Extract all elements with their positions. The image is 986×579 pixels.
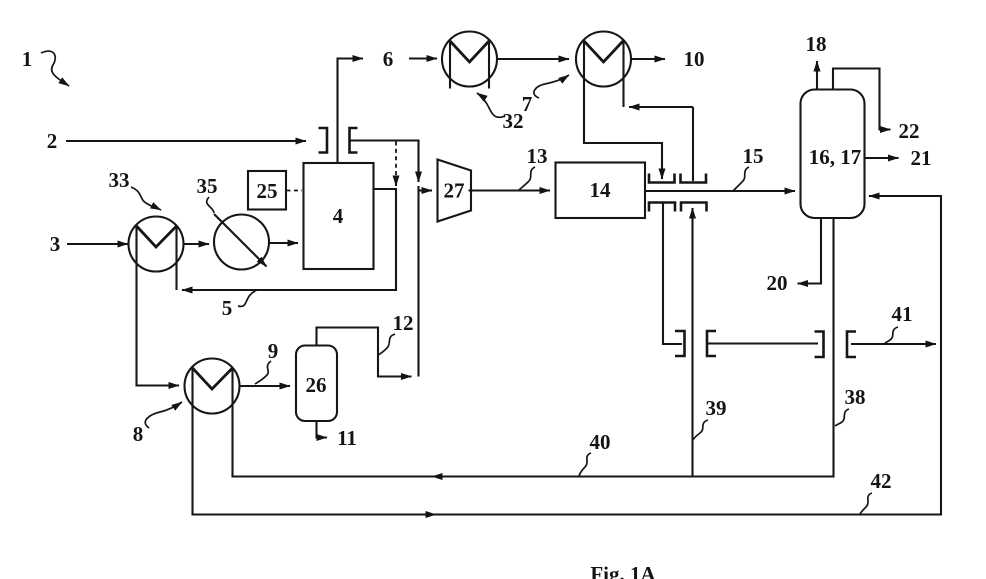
- svg-text:15: 15: [743, 144, 764, 168]
- wire stream 12 from vessel 26 top: [317, 328, 412, 377]
- wire stream 9 HX8 to vessel 26: [240, 385, 291, 387]
- wire stream 3: [67, 243, 128, 245]
- jump bracket right-half ] at line 2 over line 6: [319, 128, 328, 153]
- wire stream 2: [66, 140, 306, 142]
- svg-text:42: 42: [871, 469, 892, 493]
- svg-text:33: 33: [109, 168, 130, 192]
- wire stream 6 into HX32: [409, 57, 437, 59]
- leader for 5: [238, 290, 257, 306]
- heat exchanger 8: [185, 359, 240, 414]
- wire junction into compressor 27: [419, 189, 433, 191]
- svg-text:Fig. 1A: Fig. 1A: [590, 562, 656, 579]
- svg-text:4: 4: [333, 204, 344, 228]
- wire HX33 outlet to valve 35: [184, 243, 209, 245]
- jump bracket [ over line 39 at y343: [707, 331, 716, 356]
- svg-text:10: 10: [684, 47, 705, 71]
- leader for 38: [835, 409, 849, 426]
- svg-text:32: 32: [503, 109, 524, 133]
- svg-text:5: 5: [222, 296, 233, 320]
- wire riser corner at 693: [692, 107, 694, 181]
- wire stream below line 15 going down to cross line at 343: [663, 203, 682, 345]
- svg-text:13: 13: [527, 144, 548, 168]
- controller box 25: [248, 171, 286, 210]
- wire box 4 outlet to line 5 into HX33: [182, 189, 396, 290]
- leader for 40: [579, 453, 591, 476]
- svg-text:21: 21: [911, 146, 932, 170]
- reactor box 14: [556, 163, 646, 219]
- leader arrow for 7: [534, 75, 569, 98]
- leader arrow for 33: [131, 187, 161, 210]
- wire stream 18: [816, 61, 818, 90]
- wire mid segment y343: [707, 342, 818, 344]
- leader arrow for 32: [477, 93, 505, 117]
- wire valve 35 outlet into box 4: [270, 242, 298, 244]
- leader for 35: [207, 197, 214, 213]
- leader for 15: [733, 167, 749, 191]
- dashed control line 25 to 4: [287, 190, 303, 192]
- svg-text:12: 12: [393, 311, 414, 335]
- wire line 40 continuation into HX8 right chord: [233, 368, 433, 477]
- svg-text:1: 1: [22, 47, 33, 71]
- svg-text:6: 6: [383, 47, 394, 71]
- svg-text:16, 17: 16, 17: [809, 145, 862, 169]
- jump bracket ] over line 39 at y343: [675, 331, 685, 356]
- wire stream 41 into recycle riser: [851, 343, 936, 345]
- svg-text:25: 25: [257, 179, 278, 203]
- leader for 41: [884, 327, 898, 344]
- wire stream 2 continuation to compressor feed: [350, 141, 419, 183]
- heat exchanger 7: [576, 32, 631, 108]
- wire stream 13 compressor to box 14: [469, 189, 551, 191]
- svg-text:35: 35: [197, 174, 218, 198]
- wire HX7 right chord return from below: [629, 106, 693, 108]
- leader for 12: [378, 334, 395, 355]
- svg-text:22: 22: [899, 119, 920, 143]
- svg-text:26: 26: [306, 373, 327, 397]
- svg-text:8: 8: [133, 422, 144, 446]
- valve 35: [214, 214, 269, 270]
- leader arrow for 8: [145, 402, 182, 428]
- wire stream 39 riser: [691, 208, 693, 477]
- wire stream 42 from HX8 left chord to vessel right inlet: [193, 368, 437, 515]
- jump brackets lower pair on line 15: [649, 203, 675, 212]
- wire vertical feed into compressor junction down to line 12 junction: [417, 186, 419, 377]
- wire stream 6 riser from box 4: [338, 59, 364, 164]
- wire HX7 left chord down over line 15: [584, 41, 662, 180]
- jump bracket left-half [ at line 2 over line 6: [350, 128, 358, 153]
- svg-text:39: 39: [706, 396, 727, 420]
- leader arrow for 1: [41, 51, 69, 86]
- vessel 26: [296, 346, 337, 422]
- wire HX32 to HX7: [498, 58, 570, 60]
- jump bracket ] over line 38 at y343: [815, 332, 824, 358]
- leader for 9: [255, 361, 271, 384]
- svg-text:3: 3: [50, 232, 61, 256]
- wire stream 38 down from vessel and line 40 going left: [432, 218, 834, 477]
- heat exchanger 33: [129, 217, 184, 291]
- leader for 42: [860, 493, 872, 514]
- leader for 39: [693, 420, 708, 440]
- wire stream 22: [833, 69, 891, 130]
- svg-text:2: 2: [47, 129, 58, 153]
- compressor 27: [438, 160, 472, 222]
- wire HX33 left chord down into HX8: [137, 226, 180, 386]
- svg-text:41: 41: [892, 302, 913, 326]
- jump brackets upper pair on line 15: [649, 174, 675, 183]
- svg-text:20: 20: [767, 271, 788, 295]
- wire stream 21: [865, 157, 899, 159]
- wire stream 15 box 14 to vessel: [645, 190, 795, 192]
- wire HX7 outlet to 10: [632, 58, 666, 60]
- wire stream 11: [317, 421, 328, 438]
- wire stream 20: [798, 218, 822, 284]
- separator vessel 16 17: [801, 90, 865, 219]
- svg-text:18: 18: [806, 32, 827, 56]
- reactor box 4: [304, 163, 374, 269]
- jump bracket [ over line 38 at y343: [847, 332, 856, 358]
- svg-text:38: 38: [845, 385, 866, 409]
- svg-text:9: 9: [268, 339, 279, 363]
- svg-text:11: 11: [337, 426, 357, 450]
- heat exchanger 32: [442, 32, 497, 89]
- svg-text:7: 7: [522, 92, 533, 116]
- dashed control drop onto junction: [395, 142, 397, 179]
- leader for 13: [519, 167, 535, 190]
- svg-text:14: 14: [590, 178, 612, 202]
- svg-text:27: 27: [444, 179, 465, 203]
- svg-text:40: 40: [590, 430, 611, 454]
